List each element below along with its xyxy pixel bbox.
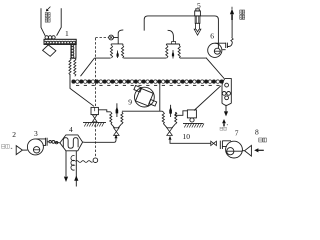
chamber left wall (70, 74, 94, 106)
damper line dashed (95, 37, 108, 39)
exhaust stub A cap (111, 44, 123, 45)
rotary valve 9 (134, 86, 157, 108)
riser B with hook (168, 30, 174, 41)
discharge box right (187, 110, 196, 118)
feed arrow (47, 7, 50, 10)
exhaust stub A bellows (110, 45, 112, 58)
air text left (2, 145, 13, 149)
svg-text:6: 6 (210, 31, 214, 40)
fan 7 volute (226, 141, 243, 158)
exhaust stub B bellows (166, 45, 168, 58)
air in arrow (258, 149, 264, 151)
stub A flow arrow (117, 51, 119, 59)
svg-text:8: 8 (255, 128, 259, 137)
heater outlet pipe (83, 138, 116, 143)
fan 3 volute (27, 139, 43, 155)
hopper (41, 8, 61, 36)
air bellows B (162, 112, 164, 124)
roller under box (190, 118, 194, 122)
fan 3 outlet flange (46, 138, 48, 146)
arrow into valve A (115, 134, 118, 138)
sensor coil (71, 156, 75, 171)
filter 5 body (195, 11, 201, 16)
fan 6 outlet elbow (227, 42, 232, 47)
flow arrow B (170, 105, 172, 117)
intake cone 2 (16, 146, 22, 155)
chamber top-left slant (81, 58, 95, 76)
filter 5 discharge arrows (194, 23, 201, 35)
intake cone 8 (242, 145, 251, 156)
exhaust stack (231, 20, 233, 38)
chamber right slant (206, 58, 225, 79)
svg-text:9: 9 (128, 97, 132, 106)
condensate up arrow (74, 175, 78, 180)
fan 6 outlet flange (226, 43, 228, 48)
svg-text:5: 5 (197, 1, 201, 10)
svg-text:3: 3 (34, 129, 38, 138)
svg-text:7: 7 (235, 128, 239, 137)
valve on pipe 10 (211, 141, 217, 145)
duct cone to fan 3 (22, 149, 27, 151)
feed text 物料 (45, 13, 50, 23)
bottom diagonal to right box (194, 86, 221, 111)
damper instrument (109, 35, 114, 40)
svg-text:10: 10 (183, 132, 191, 141)
discharge box left (vibrator) (91, 107, 98, 114)
svg-text:2: 2 (12, 130, 16, 139)
flow arrow A (116, 103, 118, 117)
exhaust arrow (231, 7, 233, 9)
wavy capillary (76, 161, 93, 163)
product out arrow glyph (222, 119, 226, 123)
exhaust stub B cap (166, 44, 179, 45)
chamber bottom right connector (176, 111, 188, 116)
funnel B (163, 124, 175, 128)
sensor bulb circle (93, 158, 98, 163)
chain circles right end (225, 83, 229, 87)
pipe 10 (170, 140, 211, 144)
svg-text:1: 1 (65, 29, 69, 38)
valve B (hourglass) (167, 128, 173, 136)
product down arrow (225, 105, 227, 112)
chamber right end channel (222, 79, 231, 106)
steam down arrow (64, 177, 68, 182)
heater 4 body (60, 135, 83, 151)
chamber top edge segments (94, 57, 205, 59)
feed duct vertical (hatched) (71, 44, 76, 58)
feed bellows (69, 58, 71, 75)
valve A (hourglass) (114, 128, 120, 136)
chamber bottom left connector (98, 110, 110, 112)
control dashed vertical (94, 38, 96, 107)
funnel A (111, 124, 122, 128)
duct filter to fan 6 (200, 16, 218, 48)
svg-text:4: 4 (69, 125, 73, 134)
heater lower pipes (66, 151, 76, 187)
exhaust text 废气 (240, 10, 245, 19)
riser A with hook (118, 30, 123, 44)
chamber bottom line (122, 110, 163, 113)
air bellows A (110, 112, 112, 124)
link fan3 to heater (47, 142, 60, 143)
fan 6 volute (208, 43, 222, 57)
fan 7 outlet box (222, 141, 231, 147)
screw feeder 1 circles (45, 36, 48, 39)
heater tube (63, 138, 78, 149)
exhaust duct to filter 5 (144, 16, 195, 31)
chute flap (43, 45, 56, 56)
bowtie under left box (92, 115, 97, 122)
fan 7 inlet flange (220, 141, 222, 149)
air text right (259, 138, 267, 142)
pipe 10 riser arrow (169, 136, 172, 140)
ground hatch right (183, 122, 203, 124)
feed duct horizontal (hatched) (44, 39, 76, 44)
perforated belt (72, 80, 224, 86)
rotary valve 9 housing (159, 84, 161, 112)
ground hatch left (83, 121, 106, 123)
stub B flow arrow (172, 50, 174, 59)
